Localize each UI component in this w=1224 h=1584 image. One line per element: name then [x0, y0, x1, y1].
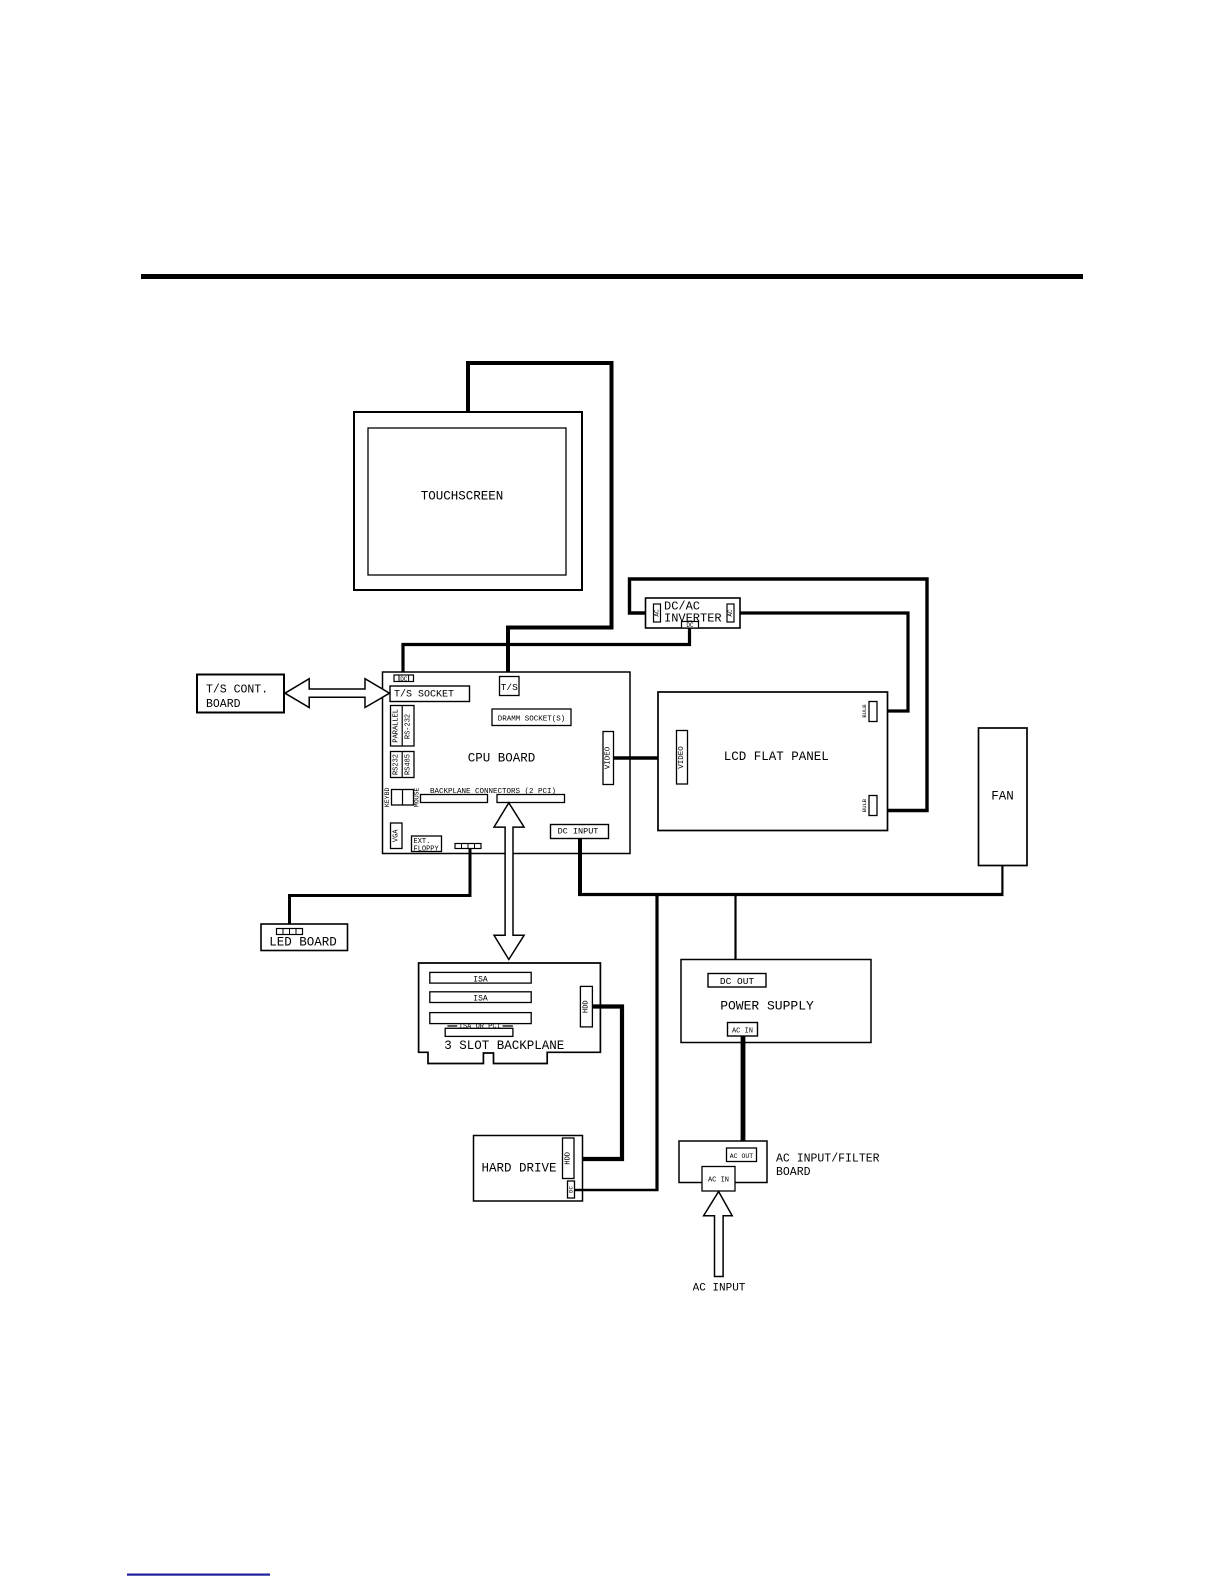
svg-text:AC INPUT/FILTER: AC INPUT/FILTER [776, 1153, 880, 1166]
svg-text:BOARD: BOARD [776, 1166, 811, 1179]
LED header connector [455, 844, 481, 849]
svg-text:RS485: RS485 [404, 754, 412, 775]
svg-text:FAN: FAN [991, 790, 1014, 804]
LED board connector [277, 929, 303, 935]
svg-text:BULB: BULB [861, 798, 868, 812]
svg-text:T/S: T/S [501, 682, 518, 693]
svg-text:DC: DC [568, 1186, 575, 1193]
svg-text:DC INPUT: DC INPUT [558, 827, 599, 837]
DC INPUT connector [551, 825, 609, 839]
svg-text:AC IN: AC IN [732, 1027, 753, 1035]
LCD flat panel block [658, 692, 888, 831]
svg-text:AC: AC [727, 609, 734, 617]
svg-text:AC: AC [654, 609, 661, 617]
svg-text:BOARD: BOARD [206, 698, 241, 711]
wire touchscreen to T/S connector [468, 363, 612, 677]
wire backplane HDD to hard drive HDD [575, 1007, 622, 1160]
vertical double arrow CPU to backplane [494, 803, 524, 960]
EXT. FLOPPY connector [412, 836, 442, 853]
CPU VIDEO connector [603, 732, 614, 785]
inverter AC connector left [654, 604, 661, 622]
FAN block [979, 728, 1028, 866]
svg-text:FLOPPY: FLOPPY [414, 845, 440, 853]
PARALLEL / RS-232 connector pair [391, 706, 415, 747]
LCD bottom BULB connector [861, 796, 877, 816]
svg-text:DC: DC [400, 676, 408, 683]
AC INPUT up arrow [704, 1192, 733, 1277]
HARD DRIVE block [474, 1136, 583, 1202]
CPU DC connector [394, 675, 414, 683]
hard drive DC connector [568, 1181, 575, 1198]
svg-text:3 SLOT BACKPLANE: 3 SLOT BACKPLANE [444, 1039, 564, 1053]
T/S connector [500, 677, 520, 696]
svg-text:DC: DC [686, 622, 694, 629]
POWER SUPPLY block [681, 960, 871, 1043]
PCI slot [445, 1028, 513, 1036]
LCD top BULB connector [861, 702, 877, 722]
svg-text:AC IN: AC IN [708, 1177, 729, 1185]
svg-text:KEYBD: KEYBD [384, 787, 391, 807]
wire bus to hard drive DC [655, 895, 658, 1191]
wire CPU video to LCD video [614, 756, 677, 759]
bottom blue rule [127, 1574, 270, 1576]
touchscreen block [354, 412, 582, 590]
ISA OR PCI label with leader lines [447, 1023, 513, 1031]
horizontal double arrow T/S CONT to T/S SOCKET [285, 679, 390, 708]
wire power supply AC IN to filter AC OUT [741, 1037, 746, 1149]
T/S SOCKET connector [390, 686, 470, 702]
svg-text:LED BOARD: LED BOARD [269, 936, 337, 950]
3 slot backplane outline [419, 963, 601, 1064]
AC input/filter board block [679, 1141, 767, 1183]
svg-text:POWER SUPPLY: POWER SUPPLY [720, 999, 814, 1014]
DC/AC inverter block [646, 598, 741, 628]
DRAMM SOCKET(S) [492, 709, 571, 726]
svg-text:T/S SOCKET: T/S SOCKET [394, 689, 454, 701]
hard drive HDD connector [563, 1138, 575, 1179]
wire inverter AC left loop to bottom bulb [630, 579, 928, 811]
svg-text:T/S CONT.: T/S CONT. [206, 684, 268, 697]
svg-text:TOUCHSCREEN: TOUCHSCREEN [421, 490, 504, 504]
wire FAN to power bus [1001, 866, 1003, 895]
wire inverter DC to CPU board DC [403, 628, 690, 676]
svg-text:PARALLEL: PARALLEL [392, 709, 400, 743]
backplane HDD connector [580, 986, 592, 1027]
AC INPUT/FILTER BOARD label [776, 1153, 880, 1180]
svg-text:DRAMM SOCKET(S): DRAMM SOCKET(S) [498, 716, 566, 724]
backplane connector 1 [421, 795, 488, 803]
svg-text:VIDEO: VIDEO [604, 746, 612, 769]
slot 3 [430, 1013, 531, 1024]
power bus horizontal [578, 893, 1004, 896]
backplane connector 2 [497, 795, 565, 803]
LED board block [261, 924, 348, 951]
wire bus to power supply DC OUT [734, 895, 736, 975]
T/S CONT. BOARD block [197, 675, 284, 713]
svg-text:HARD DRIVE: HARD DRIVE [481, 1162, 556, 1176]
LCD VIDEO connector [677, 731, 688, 785]
svg-text:LCD FLAT PANEL: LCD FLAT PANEL [724, 750, 829, 764]
svg-text:AC INPUT: AC INPUT [693, 1283, 746, 1295]
wire inverter AC right to top bulb [734, 613, 908, 711]
svg-text:ISA: ISA [473, 975, 488, 984]
wire CPU LED header to LED board [290, 849, 471, 929]
RS232 / RS485 connector pair [391, 752, 415, 778]
svg-text:MOUSE: MOUSE [413, 787, 420, 807]
wire hard drive DC to bus drop [575, 1189, 659, 1192]
svg-text:HDD: HDD [564, 1152, 572, 1165]
svg-text:VGA: VGA [392, 829, 400, 842]
svg-text:AC OUT: AC OUT [730, 1153, 754, 1160]
CPU board block [383, 672, 631, 854]
VGA connector [391, 823, 403, 849]
ISA slot 2 [430, 992, 531, 1004]
svg-text:CPU BOARD: CPU BOARD [468, 752, 536, 766]
AC IN connector (power supply) [728, 1023, 758, 1037]
top horizontal rule [141, 274, 1083, 279]
ISA slot 1 [430, 972, 531, 984]
AC IN connector (filter board) [702, 1167, 735, 1192]
KEYBD / MOUSE connector pair [384, 787, 420, 807]
AC OUT connector (filter board) [727, 1148, 757, 1162]
DC OUT connector [708, 974, 766, 988]
svg-text:ISA: ISA [473, 995, 488, 1004]
inverter AC connector right [727, 604, 734, 622]
svg-text:RS232: RS232 [392, 754, 400, 775]
inverter DC connector bottom [682, 622, 699, 630]
wire DC INPUT drop [578, 839, 582, 896]
AC INPUT label [693, 1283, 746, 1295]
svg-text:VIDEO: VIDEO [678, 746, 686, 769]
BACKPLANE CONNECTORS label [430, 788, 556, 796]
svg-text:HDD: HDD [582, 1000, 590, 1013]
svg-text:BULB: BULB [861, 704, 868, 718]
svg-text:RS-232: RS-232 [404, 714, 412, 739]
svg-text:DC OUT: DC OUT [720, 976, 755, 987]
